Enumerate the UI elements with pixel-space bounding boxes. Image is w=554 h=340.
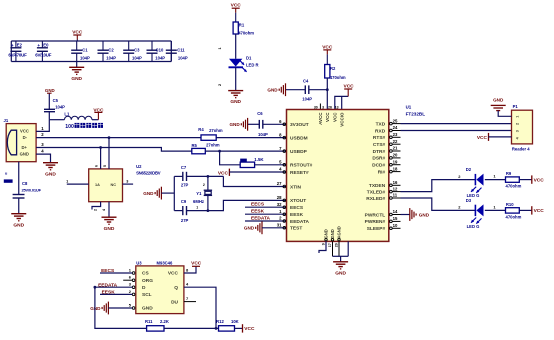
svg-text:28: 28 — [277, 195, 282, 200]
svg-text:EESK: EESK — [290, 212, 304, 218]
svg-text:C3: C3 — [134, 48, 140, 53]
svg-text:3: 3 — [515, 130, 519, 132]
svg-text:17: 17 — [328, 243, 332, 247]
svg-text:TXLED#: TXLED# — [367, 189, 386, 195]
svg-text:R5: R5 — [192, 143, 198, 148]
svg-text:2: 2 — [515, 123, 519, 125]
svg-text:C10: C10 — [156, 48, 164, 53]
svg-text:21: 21 — [393, 146, 398, 151]
svg-text:12: 12 — [393, 186, 398, 191]
svg-text:VCC: VCC — [325, 112, 330, 122]
svg-text:C7: C7 — [181, 165, 187, 170]
svg-text:20: 20 — [393, 153, 398, 158]
svg-text:D3: D3 — [466, 198, 472, 203]
svg-text:104P: 104P — [132, 56, 142, 61]
svg-text:C9: C9 — [181, 199, 187, 204]
svg-text:FT232BL: FT232BL — [406, 111, 426, 116]
svg-text:R4: R4 — [198, 127, 204, 132]
svg-text:DU: DU — [171, 299, 178, 305]
svg-text:C8: C8 — [22, 181, 28, 186]
svg-text:104P: 104P — [55, 105, 65, 110]
svg-text:RXD: RXD — [375, 128, 386, 134]
svg-text:J1: J1 — [4, 118, 9, 123]
svg-text:1: 1 — [218, 47, 222, 49]
svg-text:AGND: AGND — [337, 226, 342, 238]
svg-text:GND: GND — [90, 306, 101, 311]
svg-text:PWREN#: PWREN# — [365, 219, 386, 225]
svg-text:470ohm: 470ohm — [238, 31, 254, 36]
svg-text:VCC: VCC — [332, 112, 337, 122]
svg-text:1: 1 — [196, 206, 198, 210]
svg-text:GND: GND — [143, 191, 154, 196]
svg-text:1.5K: 1.5K — [254, 157, 264, 162]
svg-text:USBDP: USBDP — [290, 149, 308, 155]
svg-text:3V3OUT: 3V3OUT — [290, 122, 309, 128]
svg-text:9: 9 — [321, 243, 325, 245]
svg-text:USBDM: USBDM — [290, 135, 308, 141]
svg-text:GND: GND — [419, 212, 430, 217]
svg-text:RI#: RI# — [378, 169, 386, 175]
svg-text:LED G: LED G — [467, 224, 480, 229]
svg-text:5: 5 — [103, 165, 107, 167]
svg-text:+: + — [37, 43, 40, 48]
svg-text:CTS#: CTS# — [373, 142, 386, 148]
svg-text:SCL: SCL — [142, 292, 152, 298]
svg-text:1: 1 — [515, 116, 519, 118]
svg-text:470ohm: 470ohm — [506, 214, 522, 219]
svg-text:D2: D2 — [466, 167, 472, 172]
svg-text:GND: GND — [142, 306, 153, 312]
svg-text:GND: GND — [493, 97, 504, 102]
svg-text:U2: U2 — [136, 164, 142, 169]
svg-text:U1: U1 — [406, 105, 412, 110]
svg-text:VCC: VCC — [93, 107, 104, 113]
svg-text:25: 25 — [393, 118, 398, 123]
svg-text:18: 18 — [393, 166, 398, 171]
svg-text:CS: CS — [142, 271, 149, 277]
svg-text:M93C46: M93C46 — [157, 261, 173, 266]
svg-text:GND: GND — [20, 152, 29, 157]
svg-text:RESET#: RESET# — [290, 170, 309, 176]
svg-text:31: 31 — [277, 223, 282, 228]
svg-text:EEDATA: EEDATA — [290, 219, 310, 225]
svg-text:GND: GND — [335, 270, 346, 276]
svg-text:2: 2 — [94, 209, 98, 211]
svg-text:27: 27 — [277, 181, 282, 186]
svg-text:GND: GND — [244, 226, 255, 231]
svg-text:TEST: TEST — [290, 226, 302, 232]
svg-text:VCC: VCC — [344, 83, 355, 89]
svg-text:104P: 104P — [155, 56, 165, 61]
svg-text:L1: L1 — [64, 111, 70, 116]
svg-text:104P: 104P — [302, 96, 312, 101]
svg-text:2: 2 — [218, 84, 222, 86]
svg-text:25V/0.01UF: 25V/0.01UF — [22, 187, 42, 192]
svg-text:D1: D1 — [246, 56, 252, 61]
svg-text:19: 19 — [393, 159, 398, 164]
svg-text:R2: R2 — [330, 66, 336, 71]
svg-text:27P: 27P — [181, 218, 189, 223]
svg-text:ORG: ORG — [142, 278, 153, 284]
svg-text:XTOUT: XTOUT — [290, 198, 306, 204]
svg-text:DSR#: DSR# — [372, 156, 385, 162]
svg-text:6MHz: 6MHz — [193, 199, 204, 204]
svg-text:32: 32 — [277, 202, 282, 207]
svg-text:4: 4 — [102, 209, 106, 211]
svg-text:23: 23 — [393, 132, 398, 137]
svg-text:C11: C11 — [177, 48, 185, 53]
svg-text:6V/470UF: 6V/470UF — [8, 52, 27, 57]
svg-text:14: 14 — [393, 209, 398, 214]
svg-text:D-: D- — [23, 135, 28, 140]
svg-text:D: D — [142, 285, 146, 291]
svg-text:27ohm: 27ohm — [206, 142, 220, 147]
svg-text:RSTOUT#: RSTOUT# — [290, 163, 313, 169]
svg-text:100: 100 — [65, 124, 74, 130]
svg-text:104P: 104P — [178, 56, 188, 61]
svg-text:TXD: TXD — [376, 121, 386, 127]
svg-text:GND: GND — [45, 88, 55, 93]
svg-text:3: 3 — [126, 180, 128, 184]
svg-text:P1: P1 — [513, 104, 519, 109]
svg-text:Reader 4: Reader 4 — [512, 146, 530, 151]
svg-text:15: 15 — [393, 216, 398, 221]
svg-text:C6: C6 — [257, 111, 263, 116]
svg-text:SN65220DBV: SN65220DBV — [136, 171, 161, 176]
svg-text:6V/10UF: 6V/10UF — [35, 52, 51, 57]
svg-text:VCC: VCC — [534, 208, 545, 214]
svg-text:R11: R11 — [145, 319, 153, 324]
svg-text:10: 10 — [393, 223, 398, 228]
svg-text:2: 2 — [203, 183, 205, 187]
svg-text:10K: 10K — [231, 319, 239, 324]
svg-text:SLEEP#: SLEEP# — [367, 226, 386, 232]
svg-text:VCC: VCC — [534, 177, 545, 183]
svg-text:C4: C4 — [303, 78, 309, 83]
svg-text:E0: E0 — [43, 42, 49, 47]
svg-text:D+: D+ — [22, 145, 28, 150]
svg-text:PWRCTL: PWRCTL — [365, 212, 386, 218]
svg-text:EECS: EECS — [290, 205, 304, 211]
svg-text:VCC: VCC — [168, 271, 179, 277]
svg-text:RTS#: RTS# — [373, 135, 386, 141]
svg-text:1: 1 — [66, 179, 68, 183]
svg-text:C2: C2 — [108, 48, 114, 53]
svg-text:VCC: VCC — [477, 135, 488, 141]
svg-text:104P: 104P — [80, 56, 90, 61]
svg-text:VCC: VCC — [244, 326, 255, 332]
svg-text:GND: GND — [13, 222, 24, 228]
svg-text:E2: E2 — [17, 42, 23, 47]
svg-text:22: 22 — [393, 139, 398, 144]
svg-text:R12: R12 — [216, 319, 224, 324]
svg-text:TXDEN: TXDEN — [369, 183, 386, 189]
svg-text:RXLED#: RXLED# — [366, 196, 385, 202]
svg-text:DTR#: DTR# — [373, 149, 386, 155]
svg-text:470ohm: 470ohm — [506, 184, 522, 189]
svg-text:Q: Q — [174, 285, 178, 291]
svg-text:LED R: LED R — [246, 62, 259, 67]
svg-text:R9: R9 — [506, 171, 512, 176]
svg-text:29: 29 — [334, 243, 338, 247]
svg-text:6: 6 — [95, 165, 99, 167]
svg-text:VCC: VCC — [20, 129, 29, 134]
svg-text:R10: R10 — [506, 202, 514, 207]
svg-text:470ohm: 470ohm — [330, 75, 346, 80]
svg-text:GND: GND — [324, 229, 329, 238]
svg-text:27P: 27P — [181, 183, 189, 188]
svg-text:U3: U3 — [136, 261, 142, 266]
svg-text:+: + — [11, 43, 14, 48]
svg-text:2.2K: 2.2K — [160, 319, 169, 324]
svg-text:GND: GND — [267, 88, 278, 93]
svg-text:GND: GND — [330, 229, 335, 238]
svg-text:DCD#: DCD# — [372, 163, 385, 169]
svg-text:27ohm: 27ohm — [209, 128, 223, 133]
svg-text:AVCC: AVCC — [318, 112, 323, 125]
svg-text:1A: 1A — [95, 183, 100, 187]
svg-text:C1: C1 — [82, 48, 88, 53]
svg-text:VCCIO: VCCIO — [339, 112, 344, 127]
svg-text:Y1: Y1 — [196, 191, 202, 196]
svg-text:R1: R1 — [239, 22, 245, 27]
svg-text:VCC: VCC — [218, 170, 229, 176]
svg-text:104P: 104P — [106, 56, 116, 61]
svg-text:C5: C5 — [53, 98, 59, 103]
svg-text:XTIN: XTIN — [290, 184, 301, 190]
svg-text:GND: GND — [230, 99, 241, 105]
svg-text:GND: GND — [45, 171, 56, 177]
svg-text:104P: 104P — [258, 132, 268, 137]
svg-text:GND: GND — [71, 76, 82, 82]
svg-text:16: 16 — [393, 180, 398, 185]
svg-text:VCC: VCC — [191, 260, 202, 266]
svg-text:GND: GND — [229, 122, 240, 127]
svg-text:24: 24 — [393, 125, 398, 130]
svg-text:NC: NC — [111, 183, 117, 187]
svg-text:GND: GND — [104, 226, 115, 232]
svg-text:11: 11 — [393, 193, 398, 198]
